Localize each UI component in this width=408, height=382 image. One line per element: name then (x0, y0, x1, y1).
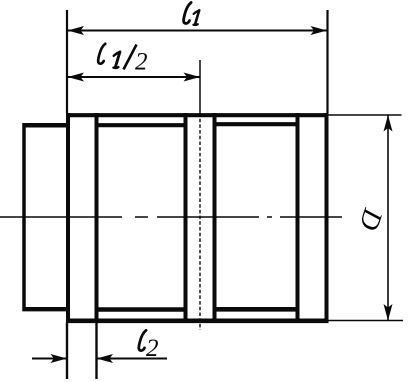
rib 1 left edge (66, 113, 70, 323)
arrowhead L1/2 right (184, 73, 201, 82)
arrowhead D top (pointing up) (384, 115, 393, 132)
coupling outer bottom edge (66, 318, 329, 323)
svg-text:D: D (352, 204, 388, 234)
rib 3 left edge (296, 113, 300, 323)
dimension line D (387, 115, 389, 321)
extension line D bottom (328, 320, 403, 322)
arrowhead L1/2 left (68, 73, 85, 82)
thread root line bottom, between rib2 and rib3 (214, 307, 298, 312)
horizontal centerline (0, 216, 342, 218)
pipe top edge (23, 123, 69, 128)
label D (352, 204, 388, 234)
dimension line L2 left part (32, 358, 67, 360)
rib 2 right edge (213, 113, 217, 323)
extension line L2 left (66, 322, 68, 379)
thread root line top, between rib1 and rib2 (97, 123, 186, 127)
label L1/2 (98, 44, 147, 76)
pipe left edge (22, 123, 26, 311)
rib 3 right edge (325, 113, 329, 323)
rib 1 right edge (95, 113, 99, 323)
dimension line L1/2 (68, 76, 201, 78)
coupling outer top edge (66, 113, 329, 117)
vertical centerline through middle rib (extension part) (199, 60, 201, 113)
extension line right (for L1) (326, 10, 328, 113)
thread root line bottom, between rib1 and rib2 (97, 307, 186, 312)
extension line left (for L1, L1/2) (66, 10, 68, 113)
pipe bottom edge (23, 307, 69, 311)
arrowhead L1 left (68, 26, 85, 35)
arrowhead L2 right (pointing left at x=96.5) (97, 354, 114, 363)
extension line L2 right (95, 322, 97, 379)
vertical centerline through middle rib (dotted part) (199, 113, 201, 330)
thread root line top, between rib2 and rib3 (214, 122, 298, 126)
arrowhead D bottom (pointing down) (384, 304, 393, 321)
svg-text:2: 2 (146, 335, 159, 362)
rib 2 left edge (184, 113, 188, 323)
arrowhead L2 left (pointing right at x=67) (51, 354, 68, 363)
dimension line L2 right part (97, 358, 168, 360)
dimension line L1 (68, 30, 328, 32)
svg-text:2: 2 (135, 49, 148, 76)
pipe left end outline (23, 123, 69, 311)
label L1 (184, 3, 200, 25)
label L2 (139, 330, 159, 362)
extension line D top (328, 114, 402, 116)
arrowhead L1 right (311, 26, 328, 35)
